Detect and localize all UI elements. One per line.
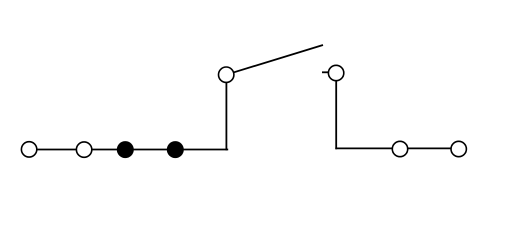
node F1: filled circle xyxy=(117,141,134,158)
wire: left vertical riser to switch pivot xyxy=(225,75,227,151)
wire: bottom-left horizontal rail xyxy=(29,149,228,151)
node SR: switch contact open circle xyxy=(328,65,343,80)
wire: short contact tick left of right switch node xyxy=(322,71,330,73)
node O1: open circle far left xyxy=(21,142,36,157)
node SL: switch pivot open circle xyxy=(219,67,234,82)
wire: right vertical drop from switch contact xyxy=(335,73,337,149)
wire: switch blade (open, diagonal arm) xyxy=(226,45,323,75)
node O6: open circle far right xyxy=(451,141,466,156)
node F2: filled circle xyxy=(167,141,184,158)
node O5: open circle right rail xyxy=(392,141,407,156)
node O2: open circle xyxy=(76,142,91,157)
wire: bottom-right horizontal rail xyxy=(335,147,459,149)
